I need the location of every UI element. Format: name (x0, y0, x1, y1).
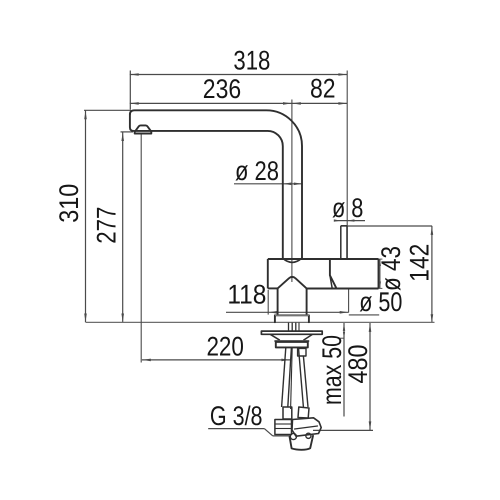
svg-text:277: 277 (92, 207, 122, 244)
svg-text:82: 82 (310, 73, 336, 103)
svg-text:ø 28: ø 28 (235, 156, 279, 186)
svg-text:G 3/8: G 3/8 (210, 401, 263, 431)
svg-text:142: 142 (405, 244, 435, 282)
svg-text:ø 8: ø 8 (332, 193, 364, 223)
svg-text:220: 220 (206, 332, 244, 362)
svg-text:318: 318 (233, 45, 270, 75)
svg-text:310: 310 (54, 184, 84, 223)
svg-text:ø 43: ø 43 (376, 246, 406, 291)
svg-text:480: 480 (343, 345, 373, 384)
svg-text:118: 118 (227, 279, 266, 309)
svg-text:236: 236 (203, 74, 241, 104)
svg-text:ø 50: ø 50 (359, 287, 402, 317)
